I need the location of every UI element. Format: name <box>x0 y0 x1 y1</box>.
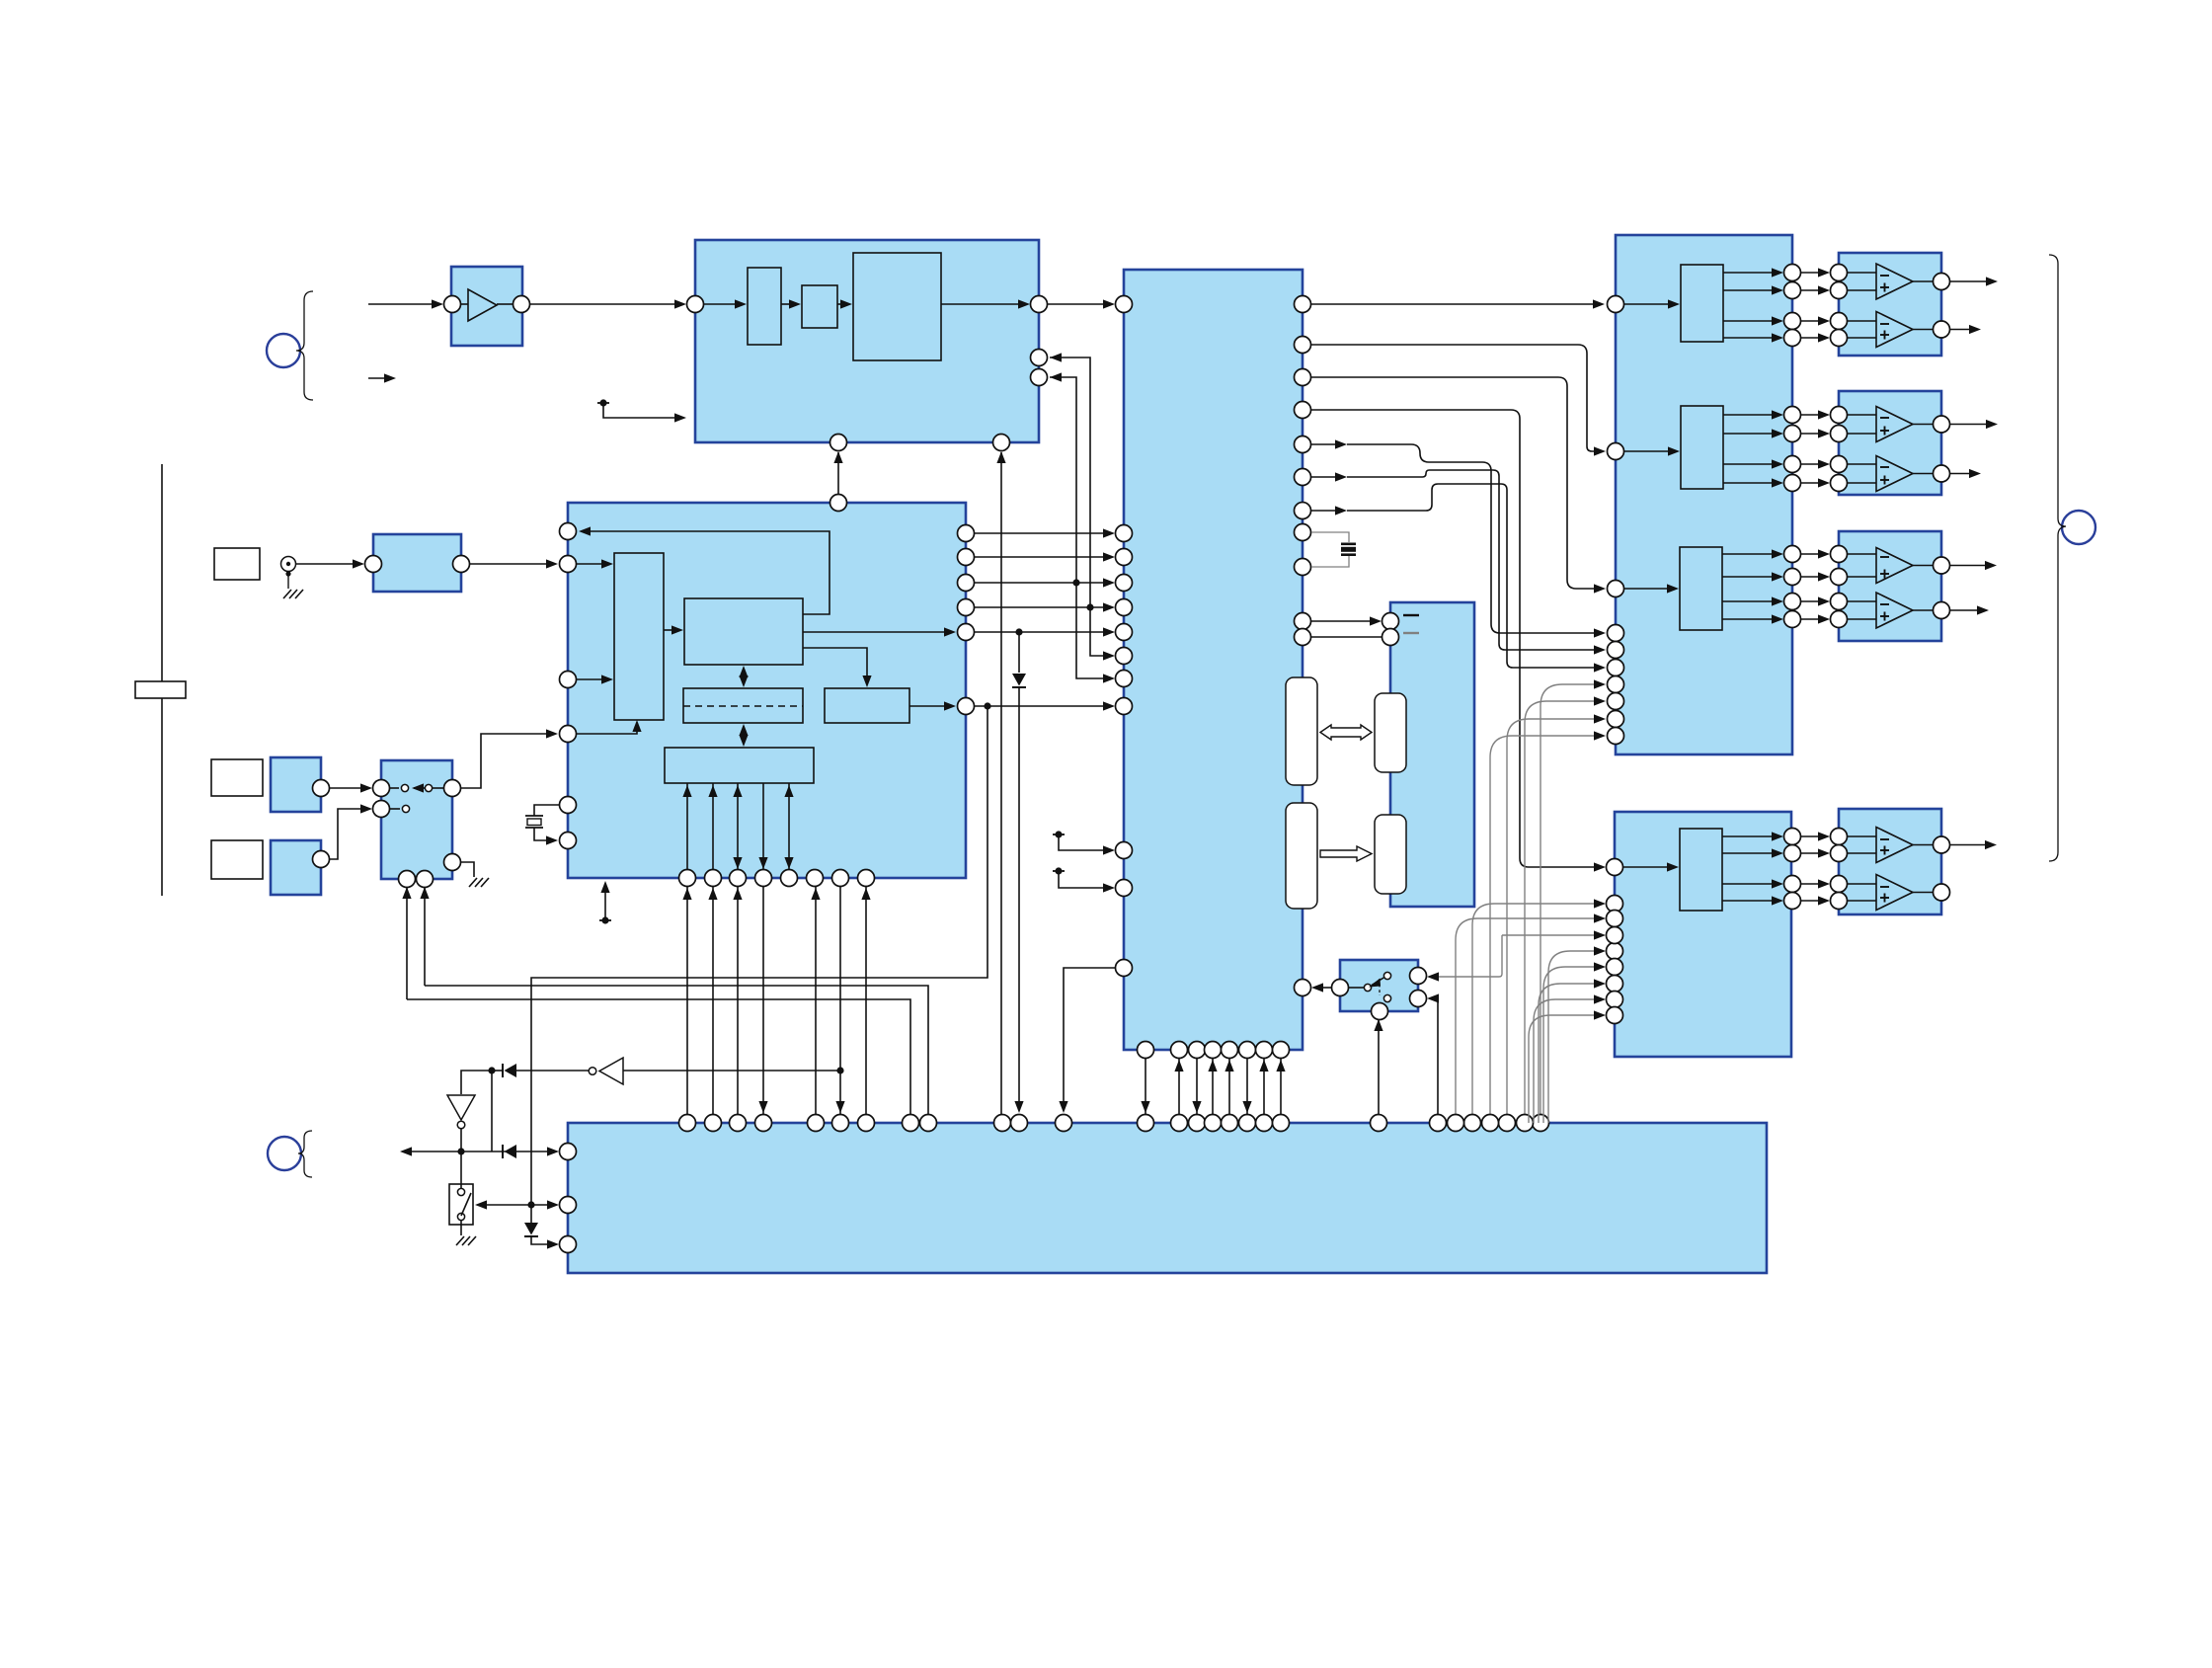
pin U2 l540 <box>1116 525 1133 542</box>
wire WD net long <box>531 706 987 1205</box>
resonator Y1 <box>1341 543 1356 557</box>
pin U5 915 <box>1607 896 1623 913</box>
wire U1 in to R1 <box>704 299 747 308</box>
block U1 RF amp top-middle <box>695 240 1039 442</box>
block interface B8 <box>1390 602 1474 907</box>
pins G2 col1 <box>1784 407 1801 492</box>
pin bar top 877 <box>858 1115 875 1132</box>
wire G1 input <box>623 1067 844 1073</box>
pin B5 in <box>365 556 382 573</box>
wire WE port 3 <box>733 783 742 869</box>
pin bar top 696 <box>679 1115 696 1132</box>
switch block SW near U2 <box>1340 960 1418 1011</box>
contact S2 bottom <box>457 1213 464 1220</box>
tap to U2 861 <box>1053 831 1115 854</box>
pin U2 bottom 1160 <box>1138 1042 1154 1059</box>
pin U2 l980 <box>1116 960 1133 977</box>
wire SW to U2 <box>1311 983 1364 992</box>
wire main input <box>368 299 443 308</box>
tap node to U1 <box>597 399 686 422</box>
wires G1 final outputs <box>1950 277 1998 334</box>
wire R1-R2 <box>781 299 801 308</box>
pin U1 fb1 <box>1031 350 1048 366</box>
pin U2 r629 <box>1295 613 1311 630</box>
lever S2 <box>461 1193 471 1216</box>
wire U5 in1 to W4 <box>1623 862 1679 871</box>
inner rect WB in U3 <box>684 598 803 665</box>
wire WB to WD <box>803 648 872 687</box>
pin B7 l2 <box>373 801 390 818</box>
connector circle left-bottom <box>268 1137 301 1170</box>
wire G2 W-to-col1 <box>1723 410 1783 487</box>
pin U5 963 <box>1607 943 1623 960</box>
pin SW left <box>1332 980 1349 996</box>
wire U2-bar 1160 <box>1141 1059 1149 1114</box>
wire bar1509 up to U4 pin 745 <box>1490 731 1606 1114</box>
panel line left <box>161 464 163 896</box>
inner register rect in U1 <box>748 268 781 345</box>
pin U3 bottom 6 <box>807 870 824 887</box>
wire bar1544 up to U4 pin 710 <box>1525 696 1606 1114</box>
wire G4 W-to-col1 <box>1722 832 1783 905</box>
pin U1 fb2 <box>1031 369 1048 386</box>
pin B8 l645 <box>1382 629 1399 646</box>
wire WD out to U3 right pin <box>909 701 956 710</box>
inner rect W1 in U4 <box>1681 265 1723 342</box>
pin B7 l1 <box>373 780 390 797</box>
pin U2 r382 <box>1295 369 1311 386</box>
inverter G1 <box>589 1058 623 1084</box>
buffer amp block <box>451 267 522 346</box>
block DAC lower-right U5 <box>1615 812 1791 1057</box>
wire U3-bar 773 <box>758 887 767 1114</box>
wire c4 <box>1311 410 1606 872</box>
pin U3 r640 <box>958 624 975 641</box>
pin buffer in <box>444 296 461 313</box>
pin U3 bottom 3 <box>730 870 747 887</box>
wire B7 b1 down <box>402 887 411 999</box>
hollow arrow Rc-Rd <box>1320 846 1372 861</box>
pin U3 bottom 5 <box>781 870 798 887</box>
wire to S2 <box>475 1200 531 1209</box>
block switch unit B7 <box>381 760 452 879</box>
pin bar left2 <box>560 1197 577 1214</box>
wire WA to WB <box>664 625 683 634</box>
wire B7 r1 to U3 <box>460 729 558 788</box>
pin U2 l687 <box>1116 671 1133 687</box>
brace left-bottom <box>298 1131 312 1177</box>
pin U3 in from B5 <box>560 556 577 573</box>
wire c5 <box>1311 439 1606 637</box>
wire U3 pin to WA 2 <box>577 675 613 683</box>
pins G1 col2 and wires <box>1800 265 1848 347</box>
pin U3 xtal2 <box>560 833 577 849</box>
wire U1 to U2 <box>1048 299 1115 308</box>
pin U2 r483 <box>1295 469 1311 486</box>
pin U2 r645 <box>1295 629 1311 646</box>
wire c1 U2 to U4 <box>1311 299 1605 308</box>
wire U1b down to bar <box>996 451 1005 1114</box>
wire xtal top <box>534 805 559 816</box>
wire bundle to U5 pin 979 <box>1543 962 1606 1123</box>
pins G4 outputs <box>1913 836 1950 901</box>
pin U2 r1000 <box>1295 980 1311 996</box>
connector circle right <box>2062 511 2095 544</box>
pin U4 lower 745 <box>1608 728 1624 745</box>
fuse/connector box on panel line <box>135 681 186 698</box>
wire R2-R3 <box>837 299 852 308</box>
wire U2 980 to bar <box>1059 968 1115 1113</box>
pin U4 lower 641 <box>1608 625 1624 642</box>
wire WB out to U3 right pin <box>803 627 956 636</box>
pin U2 l590 <box>1116 575 1133 592</box>
pin SW bottom <box>1372 1003 1388 1020</box>
wire bar1560 up to U4 pin 693 <box>1540 679 1606 1114</box>
pin U2 r450 <box>1295 437 1311 453</box>
tap to U2 899 <box>1053 867 1115 892</box>
pin U5 947 <box>1607 927 1623 944</box>
pin bar 922 <box>903 1115 919 1132</box>
wire U1 fb2 from vertical <box>1050 372 1076 583</box>
wire row640 <box>974 627 1115 636</box>
pins G1 col1 <box>1784 265 1801 347</box>
pins G4 col1 <box>1784 829 1801 910</box>
pin U2 l615 <box>1116 599 1133 616</box>
pins G3 col1 <box>1784 546 1801 628</box>
op-amps G3 triangles <box>1876 548 1913 629</box>
pins G3 col2 and wires <box>1800 546 1848 628</box>
pin bar top 1160 <box>1138 1115 1154 1132</box>
pin bar 940 <box>920 1115 937 1132</box>
pin U2 bottom 1297 <box>1273 1042 1290 1059</box>
pin U1 out <box>1031 296 1048 313</box>
pin U3 in2 <box>560 672 577 688</box>
inner wide rect WE in U3 <box>665 748 814 783</box>
pin U3 xtal1 <box>560 797 577 814</box>
op-amps G1 triangles <box>1876 264 1913 348</box>
wire diode row to bar pin1 <box>408 1147 559 1155</box>
inverter G2 down <box>447 1095 475 1129</box>
op-amps G4 triangles <box>1876 828 1913 911</box>
pin bar top 1228 <box>1205 1115 1222 1132</box>
label box lower-left <box>211 840 263 879</box>
hollow double arrow Ra-Rb <box>1320 725 1372 740</box>
pin U2 l640 <box>1116 624 1133 641</box>
wire xtal bottom <box>534 828 558 845</box>
rounded buffer Rd <box>1375 815 1406 894</box>
inner rect WC dashed in U3 <box>683 688 803 723</box>
block key block B6a <box>271 757 321 812</box>
pin U3 r615 <box>958 599 975 616</box>
wire U3 pin3 to WA bottom <box>577 720 642 734</box>
pin U1 in <box>687 296 704 313</box>
pin U4 in2 <box>1608 443 1624 460</box>
pin U3 top <box>830 495 847 512</box>
brace left-top <box>296 291 313 400</box>
pin U4 in3 <box>1608 581 1624 597</box>
RCA jack <box>281 557 296 572</box>
pin buffer out <box>513 296 530 313</box>
wire SW r1 from bundle <box>1427 935 1502 982</box>
contact SW a <box>1364 984 1371 991</box>
wire G3 W-to-col1 <box>1722 549 1783 623</box>
wire row564 <box>974 552 1115 561</box>
wire WE port 5 <box>784 783 793 869</box>
pin U4 lower 710 <box>1608 693 1624 710</box>
wire c7 <box>1311 484 1606 673</box>
inner small rect in U1 <box>802 285 837 328</box>
pin U4 in1 <box>1608 296 1624 313</box>
wire U2-bar 1194 <box>1174 1059 1183 1114</box>
pin bar top 1263 <box>1239 1115 1256 1132</box>
pin B6b out <box>313 851 330 868</box>
diode D1 <box>503 1064 516 1077</box>
pin bar top 1544 <box>1517 1115 1534 1132</box>
pin U2 res2 <box>1295 559 1311 576</box>
pin bar top 747 <box>730 1115 747 1132</box>
wire bar1526 up to U4 pin 728 <box>1507 714 1606 1114</box>
diode D3 to bar pin3 <box>524 1205 559 1249</box>
lever SW <box>1369 978 1384 988</box>
pin U5 930 <box>1607 911 1623 927</box>
pin B7 b1 <box>399 871 416 888</box>
pin U4 lower 676 <box>1608 660 1624 676</box>
pin bar left3 <box>560 1236 577 1253</box>
pin U5 in1 <box>1607 859 1623 876</box>
wire B5 to U3 <box>470 559 558 568</box>
pin bar top 1297 <box>1273 1115 1290 1132</box>
wire U3-bar 877 <box>861 887 870 1114</box>
inner rect W2 in U4 <box>1681 406 1723 489</box>
jack ground tap <box>283 571 303 598</box>
pin bar top 1194 <box>1171 1115 1188 1132</box>
wires G4 into op-amps <box>1847 836 1876 901</box>
pin U2 in <box>1116 296 1133 313</box>
diode D2 <box>503 1145 516 1158</box>
pin U1 bottom b <box>993 435 1010 451</box>
pin U4 lower 693 <box>1608 676 1624 693</box>
pin U2 out top <box>1295 296 1311 313</box>
pin U2 l564 <box>1116 549 1133 566</box>
block bottom system-control bar <box>568 1123 1767 1273</box>
pin bar top 1509 <box>1482 1115 1499 1132</box>
wire branch687 <box>1076 583 1115 683</box>
wire G1 out through D1 <box>488 1067 589 1073</box>
pin U2 l664 <box>1116 648 1133 665</box>
pin U2 bottom 1212 <box>1189 1042 1206 1059</box>
wire SW r2 from bar <box>1427 993 1439 1114</box>
wire U3-bar 696 <box>682 887 691 1114</box>
contact SW b <box>1383 972 1390 979</box>
wire U1 fb1 from vertical <box>1050 353 1090 607</box>
label box mid-left <box>211 759 263 796</box>
contact B7 s1a <box>389 784 409 791</box>
contact B7 s1b <box>412 783 444 792</box>
pin U3 r540 <box>958 525 975 542</box>
wire WE port 4 <box>758 783 767 869</box>
contact S2 top <box>457 1188 464 1195</box>
pin U1 bottom a <box>830 435 847 451</box>
pin bar left1 <box>560 1144 577 1160</box>
pin U4 lower 658 <box>1608 642 1624 659</box>
wire c3 <box>1311 377 1606 594</box>
op-amp block O2 <box>1839 391 1941 495</box>
wire row1166 left out <box>400 1147 412 1155</box>
wire buffer internal <box>461 303 513 305</box>
wire to G2 <box>461 1071 492 1094</box>
pin U2 bottom 1280 <box>1256 1042 1273 1059</box>
pin U2 bottom 1245 <box>1222 1042 1238 1059</box>
wires G2 final outputs <box>1950 420 1998 478</box>
pin B6a out <box>313 780 330 797</box>
wire bundle to U5 pin 1028 <box>1529 1010 1606 1123</box>
pin U3 r564 <box>958 549 975 566</box>
wire B7 b2 down <box>420 887 429 986</box>
wires G3 final outputs <box>1950 561 1997 615</box>
pin U3 r715 <box>958 698 975 715</box>
wire WB-WC double arrow <box>739 666 748 687</box>
pins G2 col2 and wires <box>1800 407 1848 492</box>
wire net1012 <box>407 999 910 1114</box>
wire net998 <box>425 986 928 1114</box>
wires G4 final outputs <box>1950 840 1997 849</box>
dash mark black in B8 <box>1403 614 1419 616</box>
pin bar top 1474 <box>1448 1115 1464 1132</box>
pin SW r2 <box>1410 991 1427 1007</box>
pin U3 bottom 1 <box>679 870 696 887</box>
pin U3 bottom 4 <box>755 870 772 887</box>
wire WC-WE double arrow <box>739 724 748 747</box>
pin U5 1012 <box>1607 992 1623 1008</box>
wire bundle to U5 pin 963 <box>1548 946 1606 1123</box>
pin bar top 722 <box>705 1115 722 1132</box>
pin U2 bottom 1263 <box>1239 1042 1256 1059</box>
wire U3-bar 747 <box>733 887 742 1114</box>
pin U2 l899 <box>1116 880 1133 897</box>
pin U2 l861 <box>1116 842 1133 859</box>
wire U2-B8 2 <box>1311 636 1382 638</box>
wire bar1474 up to U5 pin 930 <box>1456 913 1606 1114</box>
pin U2 bottom 1194 <box>1171 1042 1188 1059</box>
wire row540 <box>974 528 1115 537</box>
pin bar 1396 <box>1371 1115 1387 1132</box>
pin U2 res1 <box>1295 524 1311 541</box>
contact B7 s2 <box>389 805 410 812</box>
pin bar 1077 <box>1056 1115 1072 1132</box>
pins G4 col2 and wires <box>1800 829 1848 910</box>
label box top-left <box>214 548 260 580</box>
pin U5 996 <box>1607 976 1623 993</box>
wire U4 in3 to W3 <box>1624 584 1679 593</box>
inner rect W3 in U4 <box>1680 547 1722 630</box>
pins G3 outputs <box>1913 557 1950 619</box>
pin U3 monitor out <box>560 523 577 540</box>
wire U2-bar 1263 <box>1242 1059 1251 1114</box>
link SW dashed <box>1379 979 1381 995</box>
rounded buffer Ra <box>1286 677 1317 785</box>
wire c2 <box>1311 345 1606 456</box>
block input filter B5 <box>373 534 461 592</box>
op-amp block O3 <box>1839 531 1941 641</box>
pin bar top 826 <box>808 1115 825 1132</box>
wire S2 to ground <box>456 1221 476 1245</box>
brace right <box>2049 255 2066 861</box>
wire D1 branch down <box>491 1071 493 1152</box>
inner tall rect WA in U3 <box>614 553 664 720</box>
pin U3 r590 <box>958 575 975 592</box>
pin B5 out <box>453 556 470 573</box>
pin U2 r415 <box>1295 402 1311 419</box>
pins G2 outputs <box>1913 416 1950 482</box>
pin U2 r349 <box>1295 337 1311 354</box>
wire U4 in2 to W2 <box>1624 446 1680 455</box>
tap node below U3 <box>599 881 611 924</box>
wire buffer to U1 <box>530 299 686 308</box>
switch S2 box <box>449 1184 473 1225</box>
pin bar top 1280 <box>1256 1115 1273 1132</box>
pin U2 l715 <box>1116 698 1133 715</box>
wire B6a to B7 <box>329 783 372 792</box>
pin B8 l629 <box>1382 613 1399 630</box>
pin U3 in3 <box>560 726 577 743</box>
pin bar 1032 <box>1011 1115 1028 1132</box>
pin U3 bottom 8 <box>858 870 875 887</box>
wires G1 into op-amps <box>1847 273 1876 338</box>
wire into S2 <box>460 1152 462 1188</box>
inner rect WD in U3 <box>825 688 909 723</box>
rounded buffer Rb <box>1375 693 1406 772</box>
wire B6b to B7 <box>329 804 372 859</box>
pin U5 979 <box>1607 959 1623 976</box>
wire WB to monitor pin <box>579 526 829 614</box>
wire bar1491 up to U5 pin 915 <box>1472 899 1606 1114</box>
wire row590 <box>974 578 1115 587</box>
pin bar top 773 <box>755 1115 772 1132</box>
pin U2 r517 <box>1295 503 1311 519</box>
pin U2 bottom 1228 <box>1205 1042 1222 1059</box>
wire R3 to U1 out <box>941 299 1030 308</box>
wire U2-bar 1212 <box>1192 1059 1201 1114</box>
wire row615 <box>974 602 1115 611</box>
pin bar 1015 <box>994 1115 1011 1132</box>
wire c6 <box>1311 470 1606 655</box>
diode D4 on 640 branch <box>1012 632 1026 1113</box>
op-amp block O1 <box>1839 253 1941 356</box>
pin bar top 1491 <box>1464 1115 1481 1132</box>
wire branch664 <box>1090 607 1115 661</box>
junction WD net at S2 row <box>527 1201 534 1208</box>
pin bar top 1212 <box>1189 1115 1206 1132</box>
contact SW c <box>1383 994 1390 1001</box>
wire U3-bar 851 <box>835 887 844 1114</box>
wire U4 in1 to W1 <box>1624 299 1680 308</box>
wire res bottom <box>1311 556 1349 567</box>
wire U2-bar 1297 <box>1276 1059 1285 1114</box>
pin B7 r2 <box>444 854 461 871</box>
block DAC top-right U4 <box>1616 235 1792 755</box>
wire G2 out <box>457 1129 464 1155</box>
op-amps G2 triangles <box>1876 407 1913 492</box>
pins G1 outputs <box>1913 274 1950 339</box>
wire U3-bar 722 <box>708 887 717 1114</box>
wire U3top to U1a <box>833 451 842 494</box>
rounded buffer Rc <box>1286 803 1317 909</box>
wire row715 <box>974 701 1115 710</box>
inner rect W4 in U5 <box>1680 829 1722 911</box>
block U3 servo big left-center <box>568 503 966 878</box>
pin bar top 1526 <box>1499 1115 1516 1132</box>
wire G1 W-to-col1 <box>1723 268 1783 342</box>
